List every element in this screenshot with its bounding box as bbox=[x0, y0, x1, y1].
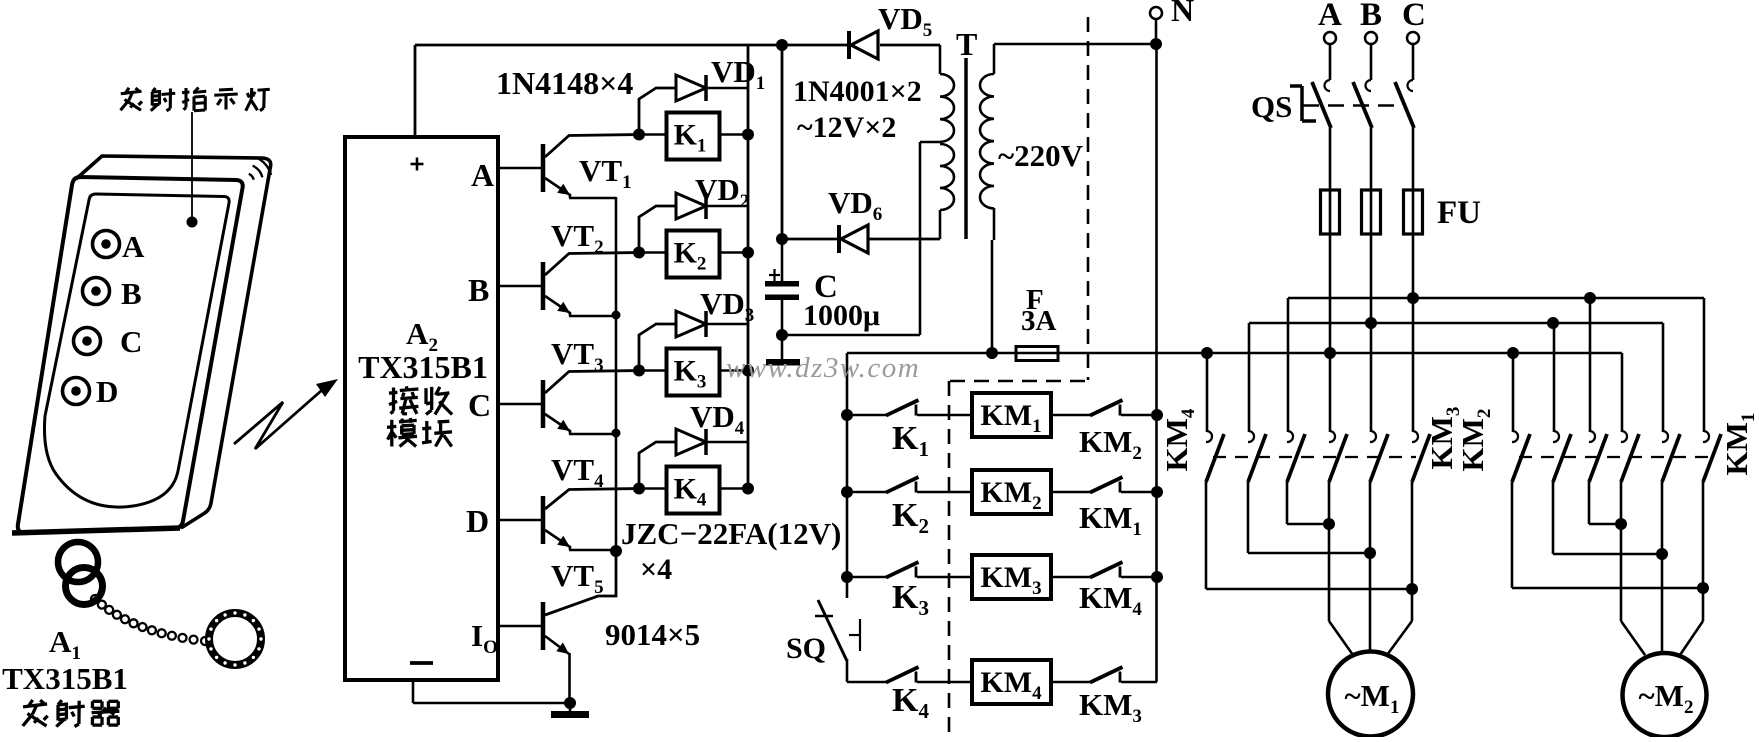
svg-text:B: B bbox=[1360, 0, 1382, 33]
svg-text:×4: ×4 bbox=[640, 553, 672, 586]
svg-text:~12V×2: ~12V×2 bbox=[797, 111, 896, 144]
svg-text:A: A bbox=[1318, 0, 1342, 33]
svg-text:B: B bbox=[121, 276, 142, 311]
svg-text:~220V: ~220V bbox=[998, 138, 1084, 173]
svg-text:D: D bbox=[466, 503, 489, 539]
svg-text:9014×5: 9014×5 bbox=[605, 617, 700, 652]
svg-text:C: C bbox=[120, 324, 142, 359]
svg-text:JZC−22FA(12V): JZC−22FA(12V) bbox=[621, 516, 841, 551]
svg-text:T: T bbox=[956, 26, 977, 62]
svg-text:TX315B1: TX315B1 bbox=[2, 661, 128, 696]
svg-text:SQ: SQ bbox=[786, 632, 826, 665]
svg-text:TX315B1: TX315B1 bbox=[358, 349, 488, 385]
svg-text:D: D bbox=[96, 374, 118, 409]
svg-text:3A: 3A bbox=[1021, 305, 1057, 337]
svg-text:1N4148×4: 1N4148×4 bbox=[496, 65, 633, 101]
svg-text:C: C bbox=[1402, 0, 1426, 33]
svg-text:N: N bbox=[1171, 0, 1194, 28]
svg-text:C: C bbox=[468, 387, 491, 423]
svg-text:www.dz3w.com: www.dz3w.com bbox=[726, 352, 920, 384]
svg-text:B: B bbox=[468, 272, 489, 308]
svg-text:QS: QS bbox=[1251, 89, 1292, 124]
svg-text:1N4001×2: 1N4001×2 bbox=[793, 75, 922, 108]
svg-text:FU: FU bbox=[1437, 195, 1481, 231]
svg-text:1000μ: 1000μ bbox=[803, 299, 880, 332]
svg-text:A: A bbox=[122, 229, 145, 264]
svg-text:A: A bbox=[471, 157, 494, 193]
